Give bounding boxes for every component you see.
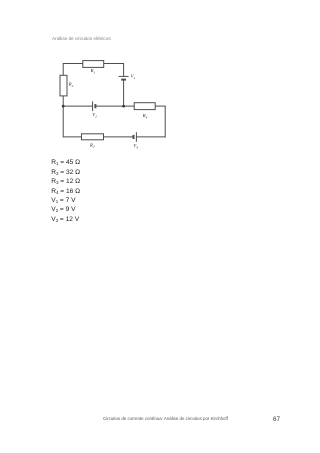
resistor R3 xyxy=(82,134,104,140)
wire: right rail xyxy=(164,106,166,138)
page number xyxy=(273,416,280,423)
battery V2 short plate xyxy=(94,104,96,108)
battery V3 long plate xyxy=(135,132,137,142)
svg-text:R3: R3 xyxy=(89,142,95,148)
battery V3 short plate xyxy=(133,135,135,139)
battery V1 short plate xyxy=(121,79,126,81)
resistor R2 xyxy=(60,75,67,96)
wire: left rail upper xyxy=(62,63,64,75)
wire: middle wire left segment xyxy=(63,105,92,107)
wire: middle wire right segment xyxy=(95,105,134,107)
battery V1 long plate xyxy=(119,75,129,77)
wire: V1 rail upper xyxy=(123,63,125,76)
wire: middle wire to right rail xyxy=(155,105,165,107)
wire: bottom wire left segment xyxy=(63,136,81,138)
wire: top wire right segment xyxy=(104,63,124,65)
svg-text:V3: V3 xyxy=(133,143,138,149)
wire: V1 rail lower xyxy=(123,80,125,107)
battery V2 long plate xyxy=(92,101,94,111)
svg-text:R4: R4 xyxy=(142,113,148,119)
footer text xyxy=(103,416,228,421)
wire: bottom wire middle segment xyxy=(104,136,134,138)
wire: bottom wire right segment xyxy=(136,136,165,138)
resistor R1 xyxy=(83,61,104,68)
node center junction xyxy=(122,105,125,108)
resistor R4 xyxy=(134,103,155,110)
wire: top wire left segment xyxy=(63,63,83,65)
node left junction xyxy=(62,105,65,108)
svg-text:V1: V1 xyxy=(131,74,136,80)
svg-text:V2: V2 xyxy=(92,112,97,118)
component values list xyxy=(51,158,80,224)
header title xyxy=(52,36,111,41)
svg-text:R1: R1 xyxy=(90,68,96,74)
wire: left rail lower xyxy=(62,96,64,137)
svg-text:R2: R2 xyxy=(68,82,74,88)
